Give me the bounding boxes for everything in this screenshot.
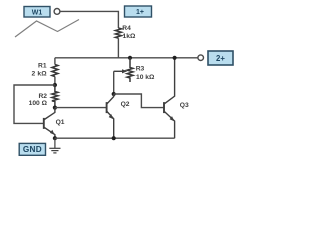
wire emitter rail xyxy=(55,137,175,139)
wire R4 bottom xyxy=(117,38,119,58)
node R1/R2 junction xyxy=(53,83,57,87)
svg-text:10 kΩ: 10 kΩ xyxy=(136,74,155,81)
resistor R4 xyxy=(115,28,121,38)
svg-text:R1: R1 xyxy=(38,63,47,70)
svg-text:2 kΩ: 2 kΩ xyxy=(32,71,48,78)
node Q2 emitter junction xyxy=(112,136,116,140)
wire R1 bottom lead xyxy=(54,77,56,86)
node R2/Q1 collector junction xyxy=(53,106,57,110)
potentiometer R3 xyxy=(127,58,133,82)
terminal box 1+ xyxy=(125,6,152,17)
wiper arrow R3 xyxy=(114,70,124,72)
resistor R2 xyxy=(52,85,58,108)
svg-text:1kΩ: 1kΩ xyxy=(123,33,136,40)
wire wiper to Q2 collector xyxy=(113,71,115,94)
svg-text:R3: R3 xyxy=(136,66,145,73)
wire W1 to R4 top xyxy=(60,11,119,28)
svg-text:Q3: Q3 xyxy=(180,102,189,109)
svg-text:R4: R4 xyxy=(122,25,131,32)
ground xyxy=(49,138,60,153)
wire R1 top lead xyxy=(54,58,56,65)
wire Q2 collector to Q3 base xyxy=(114,94,164,108)
resistor R1 xyxy=(52,65,58,77)
transistor Q1 xyxy=(44,108,55,139)
wire node to Q2 base xyxy=(55,107,106,109)
node R3 top junction xyxy=(128,56,132,60)
terminal circle 2+ xyxy=(198,55,204,61)
svg-text:GND: GND xyxy=(23,145,42,154)
source box W1 xyxy=(24,7,50,18)
svg-text:W1: W1 xyxy=(32,9,43,16)
transistor Q3 xyxy=(164,58,175,138)
terminal box GND xyxy=(19,143,45,155)
node ground junction xyxy=(53,136,57,140)
node Q3 collector junction xyxy=(173,56,177,60)
svg-text:Q1: Q1 xyxy=(56,119,65,126)
wire feedback to Q1 base xyxy=(14,85,55,123)
terminal circle W1 xyxy=(54,9,60,15)
svg-text:Q2: Q2 xyxy=(121,101,130,108)
svg-text:2+: 2+ xyxy=(216,54,225,63)
node Q2 collector junction xyxy=(112,92,116,96)
terminal box 2+ xyxy=(208,51,233,65)
svg-text:1+: 1+ xyxy=(136,9,144,16)
transistor Q2 xyxy=(107,94,114,138)
wire bus node 1 xyxy=(55,57,198,59)
triangle waveform symbol xyxy=(15,20,79,38)
svg-text:100 Ω: 100 Ω xyxy=(29,100,48,107)
